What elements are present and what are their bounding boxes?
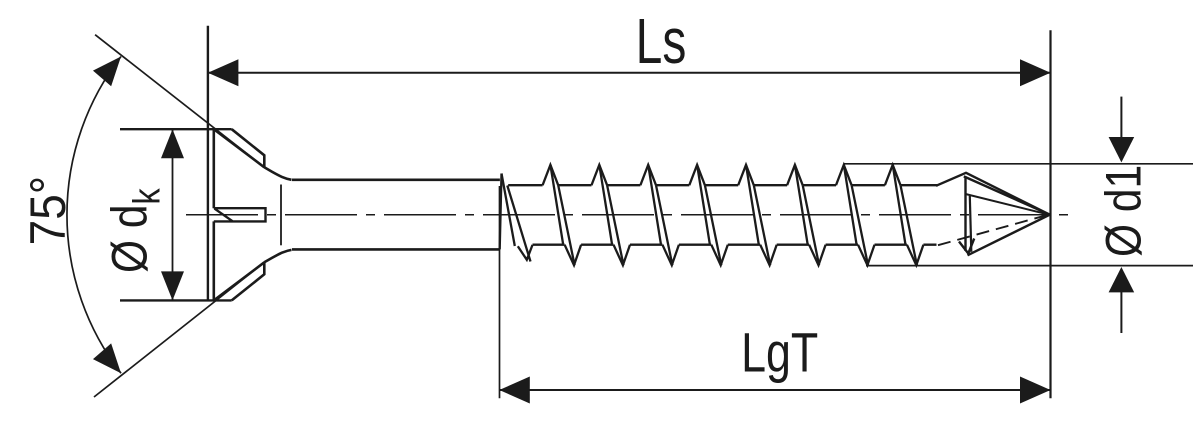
dk arrowhead bottom — [161, 271, 184, 300]
thread units — [500, 165, 938, 265]
Ls dimension line — [208, 72, 1051, 74]
shank bottom line — [292, 248, 500, 251]
LgT dimension line — [499, 389, 1050, 391]
tip cone top edge — [964, 176, 1050, 214]
d1 arrow down — [1120, 97, 1122, 139]
LgT arrowhead left — [499, 377, 530, 404]
right extension line (Ls/LgT) — [1049, 30, 1051, 398]
tip hidden root (dashed) — [938, 215, 1046, 245]
75-deg extension diagonal upper — [95, 35, 264, 168]
head cone upper — [214, 129, 264, 167]
LgT arrowhead right — [1020, 377, 1051, 404]
extension line at head face (Ls left) — [207, 26, 209, 301]
thread crest triangles lower — [518, 245, 924, 266]
d1 top extension line — [844, 163, 1193, 165]
head cone lower — [214, 262, 264, 300]
slot (drive) — [214, 208, 266, 221]
tip runout band — [970, 196, 972, 252]
75-deg arc — [67, 57, 121, 374]
thread root line lower — [533, 244, 937, 246]
LgT left extension line — [499, 186, 501, 398]
shank top line — [292, 179, 500, 182]
head top edge + dk extension — [120, 128, 232, 130]
svg-text:Ls: Ls — [636, 6, 687, 77]
head bottom edge + dk extension — [120, 299, 232, 301]
tip root cone upper — [966, 194, 1048, 214]
thread crest triangles upper — [500, 165, 901, 250]
Ls arrowhead right — [1020, 59, 1051, 86]
Ls arrowhead left — [208, 59, 239, 86]
thread root line upper — [508, 184, 938, 186]
tip flag (last crest helix) — [936, 173, 1050, 215]
tip flank vertical — [964, 176, 966, 251]
head fillet to shank bottom — [264, 250, 291, 262]
head fillet to shank top — [264, 167, 291, 180]
svg-text:75°: 75° — [21, 176, 76, 246]
head face line — [213, 129, 216, 300]
svg-text:Ø dk: Ø dk — [101, 188, 168, 273]
centerline (screw axis, dash-dot) — [186, 214, 1068, 216]
head/shank junction mark — [280, 185, 282, 246]
75-deg extension diagonal lower — [94, 262, 264, 397]
arc arrowhead lower — [93, 343, 130, 381]
tip cone bottom edge — [968, 215, 1050, 256]
dk arrowhead top — [161, 129, 184, 158]
svg-text:LgT: LgT — [741, 321, 818, 384]
d1 bottom extension line — [866, 265, 1193, 267]
arc arrowhead upper — [93, 49, 130, 87]
thread flank helix lines — [502, 165, 917, 265]
svg-text:Ø d1: Ø d1 — [1095, 165, 1151, 257]
dk dimension line — [172, 129, 174, 300]
tip runout lower triangle — [959, 239, 974, 254]
d1 arrow up — [1120, 291, 1122, 333]
